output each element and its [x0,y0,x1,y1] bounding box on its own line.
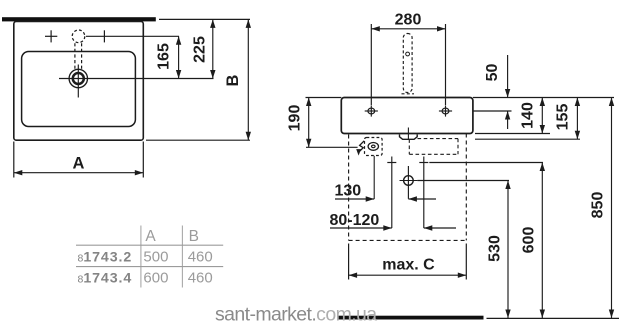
tap hole mark left (top view) [45,30,57,42]
siphon outlet symbol [400,166,418,199]
drain outer circle (top view) [69,69,87,87]
dimension 50 [505,55,510,129]
basin top extension line left [306,97,342,99]
floor line thick [337,316,484,320]
svg-text:sant-market.com.ua: sant-market.com.ua [215,304,377,326]
svg-text:460: 460 [188,248,213,265]
svg-text:81743.2: 81743.2 [78,249,133,265]
table rule 2 [76,266,223,268]
wall outlet ellipse [368,143,378,151]
drain tab (front view) [400,135,418,140]
190 bottom reference line (outlet level) [306,146,358,148]
dimension 280 [371,26,445,31]
280 extension line right [445,24,447,105]
faucet dashed circle (top view) [72,30,85,43]
faucet aerator circle [406,52,410,56]
faucet base dashes [402,93,415,95]
dimension 140 [540,98,545,134]
svg-text:A: A [145,228,156,245]
tap hole right (front view) [439,105,452,116]
fixing hole level line [429,162,543,164]
table column line 2 [181,226,183,288]
svg-text:50: 50 [484,64,501,82]
svg-text:850: 850 [590,192,607,219]
max C dashed bottom line [349,239,467,241]
wall outlet dashed box [365,138,383,156]
dimension 600 [540,163,545,319]
svg-text:max. C: max. C [382,257,435,274]
svg-text:130: 130 [335,183,362,200]
svg-text:530: 530 [487,235,504,262]
svg-text:500: 500 [143,248,168,265]
basin outer outline (top view) [14,21,144,140]
280 extension line left [370,24,372,105]
table rule 1 [76,244,223,246]
tap hole level line right [473,110,512,112]
siphon space dashed box [409,139,458,155]
drain centre cross (top view) [59,65,88,98]
140 bottom tick [475,133,550,135]
svg-text:600: 600 [521,227,538,254]
svg-text:81743.4: 81743.4 [78,271,133,287]
wall outlet inner dot [372,145,376,148]
tap hole left (front view) [365,105,378,116]
tap hole centre line (top view) [86,35,179,37]
max C extension lines [349,244,467,280]
wall line (top view) [2,17,156,21]
dimension 80-120 [330,225,456,230]
svg-text:225: 225 [192,36,209,63]
dimension A [14,170,144,175]
svg-text:B: B [224,74,242,86]
dimension 225 [210,19,215,78]
bottom edge extension line [146,139,250,141]
max C dashed line right [465,134,467,241]
floor line thin [487,317,620,319]
outlet centre line down [373,156,375,199]
svg-text:B: B [189,228,199,245]
dimension max C [349,273,467,278]
dimension 165 [176,36,181,78]
svg-text:165: 165 [156,43,173,70]
155 bottom tick [475,138,580,140]
dimension 130 [335,196,436,201]
faucet dashed body (top view) [75,43,82,69]
tap hole mark right (top view) [103,30,105,42]
svg-text:460: 460 [188,270,213,287]
outlet flow arrow [356,141,364,156]
dimension 530 [505,181,510,319]
drain inner circle (top view) [73,73,84,84]
dimension 850 [609,98,614,319]
svg-text:140: 140 [520,102,537,129]
dimension 190 [306,98,311,148]
basin top level line right [473,97,614,99]
basin inner bowl (top view) [22,52,136,127]
basin outline (front view) [341,98,473,134]
drain centre line (front view) [407,128,409,140]
svg-text:190: 190 [287,105,304,132]
dimension B [246,19,251,140]
top edge extension line [159,18,250,20]
svg-text:280: 280 [395,12,422,29]
svg-text:A: A [73,155,85,173]
svg-text:155: 155 [555,104,572,131]
table column line 1 [140,226,142,288]
svg-text:80-120: 80-120 [330,212,380,229]
fixing hole left (wall) [387,157,396,229]
siphon level line [417,180,509,182]
dimension A extension lines [14,142,144,178]
max C dashed line left [348,135,350,241]
fixing hole right (wall) [419,157,428,229]
dimension 155 [575,98,580,140]
faucet dashed outline (front view) [403,34,412,93]
svg-text:600: 600 [143,270,168,287]
drain level extension line [88,78,214,80]
